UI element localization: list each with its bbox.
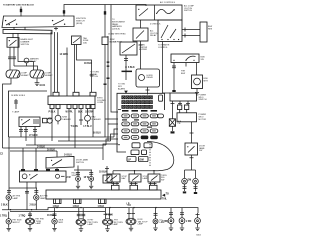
relay boxes below fuse block [132,143,140,148]
svg-text:FLASHER: FLASHER [92,118,102,121]
stoplight switch glyph [22,119,30,124]
svg-text:SWITCH: SWITCH [21,44,30,46]
svg-text:SW: SW [199,150,202,152]
ground L8 [169,224,173,231]
svg-text:1 BLK: 1 BLK [98,206,105,208]
bus tabs above right [112,185,120,190]
circuit breaker fuse with X [169,119,175,127]
svg-text:MKR: MKR [59,222,64,224]
park lamp right [34,195,39,200]
wire left rail A [3,78,12,148]
stop hazard switch box 2 [129,174,141,182]
svg-text:2 TRQ: 2 TRQ [162,221,169,223]
lamp L7 [154,208,158,219]
blower motor box [192,75,203,89]
hazard flasher [85,115,91,121]
lamp stubs to rail [8,200,10,210]
wires below stop switch [19,127,23,138]
ground courtesy left [76,181,80,189]
svg-text:LT GRN: LT GRN [29,135,38,137]
wire tab drop x81 [79,109,83,125]
fuse id label row [122,110,129,112]
svg-text:16 BATTERY FEED: 16 BATTERY FEED [108,33,126,36]
staircase continuation [102,148,104,160]
svg-text:SWITCH: SWITCH [184,10,192,12]
svg-text:14 BLU: 14 BLU [64,153,72,156]
courtesy lamp right [89,170,93,176]
svg-text:2 BLK: 2 BLK [1,205,8,207]
svg-text:LP: LP [128,160,131,162]
switch box2 leads [130,182,138,185]
wire tab drop x93 [92,109,94,137]
wire battery feed [20,7,22,17]
svg-text:MOTOR: MOTOR [199,119,207,121]
small connector boxes [178,105,182,110]
stop hazard switch box 3 [148,174,160,182]
horn relay box [136,69,160,87]
svg-text:LAMP: LAMP [13,197,19,200]
svg-text:CONN: CONN [97,102,103,104]
lamp L9 [180,208,184,218]
wire conv center down [124,55,128,67]
wire from strip C100 down 3 [57,32,59,92]
ground courtesy right [89,181,93,189]
ground L10 [195,224,199,231]
wire AC box to relay [140,20,142,28]
marker lamp row2 L2 oval [28,212,32,219]
hl switch rheostat circle [22,174,27,179]
wire dimmer feed 14 GRN [66,48,68,97]
convenience center box [120,42,137,55]
wire top feed run [64,5,146,17]
svg-text:4 ORN BLK: 4 ORN BLK [150,23,161,25]
svg-text:SWITCH: SWITCH [90,76,98,78]
dome lamp stubs [183,184,187,191]
svg-text:18 W: 18 W [84,177,90,179]
svg-text:RES: RES [208,28,213,30]
fuse X-square rows [122,96,153,109]
lamp feed 2 [34,188,38,195]
wires mode to resistor [182,28,200,38]
wire tab drop x75 [74,109,76,148]
bundle wire y148 [3,144,119,148]
svg-text:6 BLK: 6 BLK [128,67,135,69]
ground L5 [105,225,109,231]
svg-text:1 TRQ: 1 TRQ [0,215,7,217]
pilot circle [47,118,52,123]
wire x18 from strip [18,33,34,70]
dome lamp [182,178,188,184]
svg-text:T GRN: T GRN [71,126,78,128]
svg-text:W PPL: W PPL [66,112,74,114]
wire dimmer low beam [8,47,12,70]
svg-text:LAMP: LAMP [36,222,42,225]
wire motor box down [190,122,194,143]
ground L4 [79,225,83,231]
svg-text:MTR: MTR [204,80,209,82]
dashed centerline [149,144,151,167]
ground L7 [153,224,157,231]
svg-text:LAMP: LAMP [138,223,144,226]
wire AC relay to horn box [139,41,143,69]
wire tab drop x69 [68,109,70,141]
feed line to lamp switches [113,170,158,172]
wire blower switch to motor [196,63,198,76]
bundle wire y137 [9,129,119,137]
bundle wire y151 [10,150,57,152]
blower switch box [171,54,199,63]
wire from strip C100 down 1 [50,32,52,97]
svg-text:RELAY: RELAY [147,76,154,79]
svg-text:SW: SW [161,180,164,182]
svg-text:ALARM: ALARM [118,87,125,90]
svg-text:DM: DM [188,179,192,181]
frame instrument panel [9,91,48,137]
lamp L6 oval [127,208,135,219]
jamb switch glyph [52,160,62,166]
door jamb switch parallelogram [46,157,74,169]
bottom rail 1 [2,208,198,213]
tab above strip 1 [53,92,59,96]
power motor box [177,113,197,122]
cargo lamp [193,178,199,184]
svg-text:A/C CONTROLS: A/C CONTROLS [160,1,176,4]
svg-text:TAIL: TAIL [162,197,168,200]
door jamb switch right [185,143,198,155]
tab above strip 3 [90,92,96,96]
wire horn relay to fuse block [146,87,150,95]
wire acc mid lead [178,101,182,105]
wire fuse L-run to tab3 [77,45,94,93]
AC relay box [133,28,148,41]
steering column connector strip [48,96,95,105]
headlamp left [6,70,20,78]
svg-text:2 RD: 2 RD [186,221,192,223]
stoplight switch box [19,117,40,127]
wire breaker down to pad [172,126,174,131]
right small box [103,175,112,183]
hl switch inner contact [56,174,60,178]
park lamp left [6,195,11,200]
wire drop x36 to hl switch [35,148,37,169]
ground L6 [129,225,133,231]
blower mode box [158,20,182,42]
ground G101 [35,78,40,86]
AC control switch box [136,5,182,20]
svg-text:DIM: DIM [140,160,144,162]
header line above lamps [9,187,37,189]
wire tab drop x52 [51,109,53,141]
lamp L4 oval [77,208,85,219]
svg-text:LAMP: LAMP [113,223,119,226]
svg-text:16 BLU: 16 BLU [93,133,101,135]
ground L3 [52,224,56,231]
inline connector in frame [14,99,18,109]
wire drop x23 to hl switch [22,148,24,169]
wire tab drop x87.5 [87,109,89,116]
AC pressure wave [157,9,174,13]
svg-text:16 BLK: 16 BLK [47,215,55,217]
svg-text:BLK: BLK [78,112,83,114]
wire hl switch down 2 [35,182,37,188]
connector pair right of box [43,118,48,123]
connector strip C100 [3,29,52,34]
wire strip to dimmer [12,33,14,37]
bottom rail 2 [10,211,105,213]
svg-text:1 TRQ: 1 TRQ [19,215,26,217]
power accessory feed box [170,93,197,101]
svg-text:16 BLK: 16 BLK [47,149,55,151]
svg-text:SW: SW [201,59,204,61]
wire blower switch mid [185,63,187,67]
bottom bus connector bar [46,190,161,199]
svg-text:18 BLK: 18 BLK [84,63,92,65]
svg-text:TO: TO [166,194,169,196]
rail junction dots [10,209,11,210]
svg-text:BLW: BLW [181,73,185,75]
ignition switch box [2,16,74,28]
wire acc right lead [186,101,190,105]
bundle wire y141 [58,134,118,141]
svg-text:TO BATTERY JUNCTION BLOCK: TO BATTERY JUNCTION BLOCK [3,3,34,6]
to tail lamps arrow [162,194,165,197]
wire conv center continue [125,67,127,80]
wire stub x56 with dashes [54,27,58,30]
svg-text:14 BRN 16 BLK: 14 BRN 16 BLK [11,95,26,97]
headlight dimmer switch box [7,38,19,48]
svg-text:CONTROL: CONTROL [158,47,169,49]
tee to dome lamps [185,170,196,178]
wire from strip C100 down 2 [54,32,56,92]
turn flasher [55,115,61,121]
svg-text:H/LAMP: H/LAMP [21,74,29,77]
svg-text:RELAY: RELAY [150,34,157,37]
wire jamb down [190,155,194,170]
courtesy lamp left [76,170,80,176]
svg-text:LAMP: LAMP [40,197,46,200]
wire blower switch left [172,63,176,91]
headlamp right [30,70,44,78]
svg-text:14 BLK: 14 BLK [37,145,45,148]
switch box hatch [34,119,38,124]
svg-text:FLASHER: FLASHER [62,118,72,121]
pad terminals on hl switch [21,169,25,171]
svg-text:H/LAMP: H/LAMP [45,74,53,77]
ground L1 [7,224,11,231]
AC switch glyph [139,9,148,17]
connector dashes on x64 [63,10,65,13]
svg-text:T LAMP: T LAMP [12,111,20,114]
svg-text:SWITCH: SWITCH [76,162,84,164]
svg-text:MKR LP: MKR LP [13,222,21,224]
svg-text:LT BLU: LT BLU [84,126,92,128]
svg-text:18 BLK: 18 BLK [99,172,107,174]
fuse cartridge [159,95,163,101]
lamp feed 1 [7,188,11,195]
blower resistor box [200,22,207,42]
wire acc left lead [171,101,175,119]
feeds to motor box [180,110,187,113]
wire branch x105 [104,5,106,37]
switch box3 leads [149,182,157,185]
svg-text:18 GRN: 18 GRN [85,112,94,114]
tabs below strip [50,105,54,109]
lamp L10 [196,213,200,218]
ground blower motor [195,89,199,96]
courtesy lamp header [74,166,92,171]
lamp L3 [53,208,57,219]
switch glyph right [53,20,64,25]
hl switch glyph [30,174,38,179]
svg-text:HEADLIGHT: HEADLIGHT [21,38,34,41]
component connector circle [24,58,29,63]
lamp L8 [169,208,173,218]
connector C1 dashes [20,9,22,12]
wire tab drop x58 [57,109,59,116]
svg-text:SWITCH: SWITCH [199,99,207,101]
wire stub x25 [24,27,26,29]
svg-text:(RUN): (RUN) [76,23,82,25]
switch box1 leads [112,182,120,185]
tab above strip 2 [73,92,79,96]
wire stub x14 [13,27,15,29]
svg-text:P BLK: P BLK [106,215,113,217]
svg-text:1 BLK: 1 BLK [53,206,60,208]
switch glyph left [6,20,16,25]
wire cross to right lamp [14,66,38,70]
wire left rail blower [163,42,171,94]
svg-text:LAMP: LAMP [88,223,94,226]
svg-text:RELAY: RELAY [30,60,37,63]
ground L2 [28,224,32,231]
gauges fuse box [72,36,82,45]
ground L9 [180,224,184,231]
connector box right [102,37,108,45]
tab pin marks [56,199,105,204]
harness arc [147,142,174,171]
connector dashes x105 [104,11,106,14]
feed drops into switch boxes [113,171,154,174]
horn symbol circle [139,75,145,81]
wire hl switch down 1 [25,182,29,210]
stop hazard switch box 1 [107,174,120,182]
svg-text:1 BLK: 1 BLK [73,206,80,208]
wire branch x111 [111,5,118,113]
svg-text:G101: G101 [40,85,46,87]
dimmer switch glyph [10,40,17,46]
wire dimmer high beam [12,47,16,66]
headlight switch box [20,171,67,182]
wire fuse to tab2 [74,45,76,93]
svg-text:14 GRN: 14 GRN [60,53,69,56]
wire jamb to headlight switch [56,151,58,171]
svg-text:(14 BLK): (14 BLK) [112,29,120,31]
wire tick labels x108 [107,62,110,63]
mode switch glyphs [161,25,176,38]
fuse block outline [117,93,165,152]
bundle wire y145 [26,139,118,145]
bus tabs below left [54,199,62,204]
lamp L5 oval [104,208,112,219]
marker lamp row2 L1 [8,212,10,219]
wire rail B left [8,137,10,188]
svg-text:2 BLK: 2 BLK [30,205,37,207]
rounded fuse rows [158,114,164,118]
